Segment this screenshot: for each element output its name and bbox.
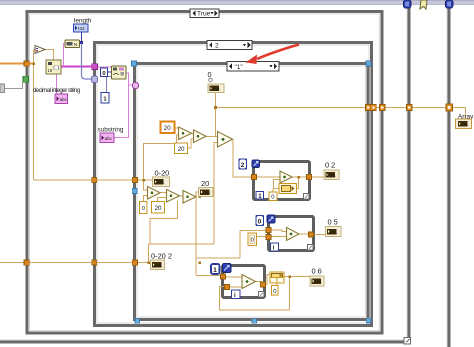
wire: 0 indicator down to T4 apex	[215, 92, 217, 137]
tunnel: green boolean	[23, 76, 29, 82]
wire: vertical x148.5 to y262.5	[148, 244, 150, 263]
svg-text:DBL: DBL	[155, 264, 162, 268]
arithmetic triangles row1 Ta	[179, 127, 192, 140]
wire: branch down into T1 upper input	[144, 180, 148, 190]
svg-text:16: 16	[48, 68, 53, 73]
wire: DBL input entering True case at left	[0, 63, 34, 65]
svg-text:20: 20	[155, 205, 162, 212]
wire: T4 output down riser x233 into box1	[232, 140, 235, 178]
navy junction at length	[80, 41, 83, 44]
feedback node in box1	[279, 184, 297, 194]
svg-text:"1": "1"	[235, 64, 243, 71]
tunnel: cyan bottom-right corner	[366, 318, 371, 323]
pink string wires	[57, 44, 134, 138]
svg-text:1: 1	[213, 267, 217, 274]
svg-text:0-20 2: 0-20 2	[151, 252, 172, 261]
box2 count const 0	[256, 216, 264, 226]
svg-text:0 2: 0 2	[325, 161, 335, 170]
tunnel: cyan y190	[132, 188, 137, 193]
triangle T1	[148, 187, 161, 200]
svg-text:I32: I32	[78, 26, 85, 32]
triangle in box2	[287, 228, 300, 241]
wire: 0 const to subset fn	[108, 71, 113, 73]
label 0 6	[312, 267, 322, 276]
tunnel: violet selector	[92, 76, 98, 83]
wire: Tb out to T4 upper-left input	[206, 136, 218, 138]
while loop R2 right border	[447, 5, 451, 347]
blue loop tunnels at top bar	[404, 0, 454, 8]
sub for-loop box1 border	[254, 162, 310, 200]
svg-text:DBL: DBL	[203, 191, 210, 195]
indicator 0 5	[326, 227, 342, 237]
indicator 0 (top)	[208, 84, 224, 93]
wire: into conversion triangle	[34, 49, 37, 51]
wire: box1 inner: tunnel to triangle	[257, 176, 281, 178]
navy int wires	[80, 32, 113, 93]
wire: build-array out to 0 6 indicator	[284, 276, 311, 278]
box3 i terminal	[232, 290, 241, 299]
wire: feedback node out to triangle lower input	[274, 180, 281, 189]
svg-text:DBL: DBL	[329, 174, 336, 178]
NumToDecString fn	[46, 60, 61, 74]
gray ring	[209, 78, 213, 82]
decimal string indicator	[55, 94, 68, 104]
label 0-20 2	[151, 252, 172, 261]
svg-text:20: 20	[164, 125, 171, 132]
while loop R1 bottom border	[0, 340, 411, 344]
wire: box3 triangle out to right tunnel	[256, 282, 262, 285]
case selector label True	[190, 9, 219, 18]
wire: box3 inner upper	[226, 276, 243, 278]
tunnels on case 2 border	[92, 64, 98, 265]
svg-text:0: 0	[142, 206, 145, 212]
triangle T2	[167, 190, 180, 203]
svg-text:2: 2	[215, 43, 219, 50]
wire: Ta out to Tb	[192, 133, 194, 135]
constant 20 mid	[175, 143, 188, 154]
tunnel: orange DBL in	[24, 61, 29, 66]
wire: T1 to T2	[160, 192, 167, 194]
svg-text:0: 0	[258, 219, 262, 226]
tunnel: orange y262	[24, 260, 29, 265]
constant 0 at box3	[272, 286, 279, 296]
svg-text:DBL: DBL	[315, 280, 322, 284]
wire: feedback wrap-around from junction to inset tunnel	[220, 277, 290, 311]
tunnel: cyan bottom-middle	[252, 319, 257, 324]
big triangle T4	[218, 132, 233, 148]
case structure 1 border	[135, 64, 369, 320]
wire: length down to case2 selector tunnel	[82, 43, 93, 80]
wire: magenta branch down to decimal indicator	[56, 74, 58, 94]
svg-text:0 5: 0 5	[328, 218, 338, 227]
tunnel: orange y262	[92, 260, 97, 265]
triangle T3	[183, 191, 196, 204]
triangle in box3	[242, 275, 256, 289]
box1 N icon	[252, 160, 260, 168]
indicator Array	[456, 119, 472, 129]
tunnel: magenta string	[92, 64, 98, 70]
conversion triangle fn	[35, 46, 45, 54]
wire: string length out to junction and up to length indicator	[80, 32, 82, 43]
wire: box3 out elbow up into build-array icon	[266, 275, 271, 285]
svg-text:0 6: 0 6	[312, 267, 322, 276]
substring indicator	[100, 133, 114, 143]
wire: box3 inner lower from inset tunnel	[229, 286, 243, 288]
sub for-loop box2 border	[269, 217, 314, 251]
triangle Tb	[194, 130, 207, 143]
wire: branch into box1 left tunnel	[233, 176, 253, 178]
wire: T4 lower input riser x214	[214, 143, 218, 245]
triangle in box1	[280, 171, 292, 183]
svg-text:0: 0	[273, 289, 276, 295]
while loop R1 resize handle	[404, 338, 411, 345]
wire: long horizontal y180 to 0-20 indicator	[34, 179, 153, 181]
wire: vertical branch x33.5 down to y180	[33, 50, 35, 181]
constant 0 tall near T1	[140, 202, 148, 214]
wire: subset output to tunnel and substring indicator	[114, 73, 133, 138]
wire: box1 init 0 const up	[272, 189, 274, 193]
box3 count const 1	[211, 264, 220, 274]
svg-text:decimal integer string: decimal integer string	[33, 87, 81, 94]
constant 20 lower	[152, 202, 165, 214]
wire: T2 to T3	[180, 195, 184, 197]
svg-text:abc: abc	[60, 97, 68, 102]
svg-text:20: 20	[201, 179, 209, 188]
indicator 0 2	[324, 170, 339, 180]
wire: 1 const up to subset fn lower input	[107, 77, 113, 93]
wire: NumToDecStr output magenta	[61, 66, 92, 68]
StringSubset fn	[112, 66, 127, 79]
indicator 0-20 2	[151, 260, 165, 270]
wire: y258 branch to box2	[196, 231, 267, 259]
wire: box1 feedback down and into feedback node	[297, 177, 299, 189]
wire: box1 out to 0 2 indicator	[312, 176, 325, 178]
wire: triangle out to NumToDecStr	[45, 50, 54, 61]
wire: horizontal y244	[149, 243, 215, 245]
indicator 20	[199, 188, 214, 197]
wire: string into subset fn	[98, 66, 113, 68]
svg-text:0: 0	[102, 71, 105, 77]
svg-text:abc: abc	[105, 136, 113, 141]
svg-text:N: N	[74, 42, 77, 47]
constant 0 at box2	[248, 233, 257, 246]
tunnel: cyan bottom-left	[135, 319, 140, 324]
case selector label "1"	[227, 60, 279, 71]
label length	[74, 18, 92, 25]
indicator 0-20	[153, 177, 170, 187]
wire: magenta branch up into string-length input	[64, 44, 66, 67]
box1 count const 2	[239, 159, 247, 169]
svg-text:0: 0	[208, 70, 212, 79]
tunnels along y107.5 wire	[366, 104, 453, 111]
constant 0 at box1	[269, 192, 277, 201]
wire: long horizontal y262.5 from left edge	[0, 262, 151, 264]
svg-text:DBL: DBL	[330, 230, 337, 234]
top lavender structure edge bar	[0, 0, 474, 5]
label Array	[458, 114, 474, 121]
label decimal integer string	[33, 87, 81, 94]
wires group	[0, 50, 466, 311]
while loop R1 right border	[407, 5, 411, 341]
wire: box2 inner lower	[271, 236, 287, 238]
tunnels on True case border	[23, 61, 29, 265]
build array icon	[270, 272, 284, 283]
wire: box2 out to 0 5 indicator	[314, 234, 326, 236]
label 0	[208, 70, 212, 79]
label 0 2	[325, 161, 335, 170]
case selector label 2	[207, 41, 252, 50]
label 0 5	[328, 218, 338, 227]
label 0-20	[155, 169, 170, 178]
svg-text:length: length	[74, 18, 92, 25]
svg-text:DBL: DBL	[157, 181, 164, 185]
box1 i terminal	[256, 192, 264, 200]
gap highlight between case borders	[370, 65, 371, 318]
sub for-loop box3 border	[223, 266, 265, 298]
tunnel: orange y180	[132, 177, 137, 182]
wire: build-array bottom to 0 const	[276, 283, 278, 286]
svg-text:DBL: DBL	[461, 123, 468, 127]
red annotation arrow	[246, 45, 300, 65]
svg-text:0: 0	[271, 195, 274, 201]
blue constant 1	[101, 93, 109, 104]
tunnel: cyan top-left corner	[132, 61, 137, 66]
wire: long horizontal y107.5 out to Array indicator	[216, 108, 466, 120]
tunnels on sub-boxes	[221, 175, 314, 290]
tunnel: pink unwired	[133, 83, 139, 89]
case structure 2 border	[95, 43, 372, 326]
constant 20 upper	[161, 122, 175, 134]
svg-text:substring: substring	[98, 127, 124, 134]
wire: 0 const up to T1 lower input	[144, 196, 148, 202]
svg-text:0: 0	[251, 238, 254, 244]
wire: feed into box3 upper tunnel	[196, 275, 222, 277]
box2 N icon	[267, 215, 275, 223]
length indicator I32	[74, 24, 89, 32]
tunnel: orange y262	[132, 260, 137, 265]
label 20 indicator	[201, 179, 209, 188]
case structure TRUE border	[27, 12, 382, 334]
svg-text:0-20: 0-20	[155, 169, 170, 178]
svg-text:2: 2	[241, 162, 245, 169]
wire: box2 triangle out to right tunnel	[299, 233, 309, 235]
wire: box2 inner upper	[271, 230, 287, 232]
wire: box1 triangle out to right tunnel	[292, 176, 307, 178]
tunnel: orange y180	[92, 177, 97, 182]
box3 N icon	[223, 264, 232, 273]
svg-text:True: True	[197, 11, 211, 18]
wire: main riser x196 from T3 junction down to box3 feed	[195, 197, 197, 276]
blue constant 0	[101, 68, 108, 77]
gray error wire at left	[0, 82, 23, 93]
tunnels on case 1 border	[132, 61, 372, 323]
svg-text:20: 20	[178, 146, 185, 153]
svg-text:DBL: DBL	[213, 87, 220, 91]
wire: 20 lower const to T2 lower input	[158, 198, 167, 202]
indicator 0 6	[310, 276, 324, 286]
wire: 20 const to Ta upper input	[175, 127, 179, 129]
wire: T3 out to 20 indicator	[196, 192, 199, 197]
wire: 20 const2 up to Tb lower input	[188, 139, 194, 148]
tunnel: cyan top-right corner	[366, 61, 371, 66]
yellow flag icon at top	[420, 0, 427, 9]
wire: 0 const into box2 lower tunnel	[256, 236, 268, 238]
wire: riser x143.5 up to y143.5 across to Ta lower input	[144, 135, 179, 180]
label substring	[98, 127, 124, 134]
StringLength fn	[65, 40, 80, 48]
wire: detour riser to T3 lower input	[150, 201, 178, 245]
box2 i terminal	[271, 243, 279, 252]
